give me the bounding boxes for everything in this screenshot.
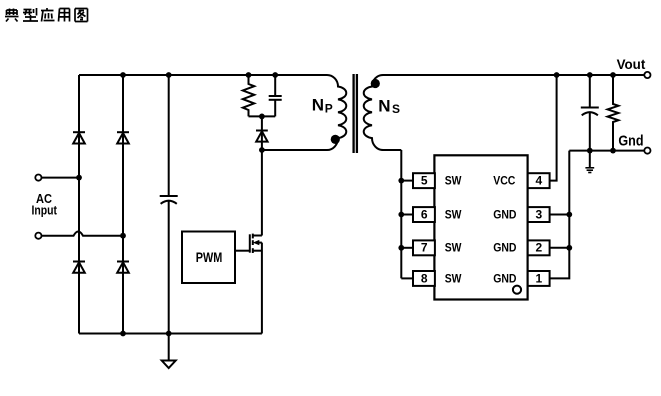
transistor Q1 (MOSFET) [250,234,262,253]
svg-text:GND: GND [493,243,516,255]
wire: bottom rail [79,333,262,335]
node: Gnd rail / resistor [610,148,616,154]
svg-text:GND: GND [493,209,516,221]
label: Np [312,96,333,116]
应 [41,8,55,22]
svg-text:N: N [312,96,324,115]
wire: gate lead [235,250,250,252]
pin 8 box [413,271,435,286]
resistor R2 (output load) [608,75,619,151]
diode D2 top-right [117,132,129,143]
svg-text:VCC: VCC [493,176,515,188]
wire: bridge right vertical [122,75,124,334]
diode D1 top-left [73,132,85,143]
node: top rail / output cap [587,72,593,78]
wire: pin6 lead [401,214,413,216]
wire: filter cap branch lower [168,201,170,334]
node: top rail / snubber capacitor [272,72,278,78]
svg-text:7: 7 [421,241,428,255]
型 [23,8,38,21]
svg-text:SW: SW [445,176,462,188]
svg-text:Input: Input [31,204,57,218]
wire: secondary bottom lead to SW bus [400,150,402,278]
svg-text:5: 5 [421,174,428,188]
resistor R1 (snubber) [243,75,254,116]
node: top rail / snubber resistor [246,72,252,78]
pin 6 box [413,207,435,222]
wire: snubber RC join [249,115,276,117]
wire: pin7 lead [401,247,413,249]
wire: VCC lead to top rail [550,75,557,181]
典 [5,9,19,22]
svg-text:8: 8 [421,271,428,285]
wire: pin5 lead [401,180,413,182]
pin 7 box [413,240,435,255]
svg-text:P: P [325,102,333,116]
wire: top rail primary side [79,74,327,76]
svg-text:PWM: PWM [196,249,223,265]
wire: pin3 lead [550,214,570,216]
diode D5 (snubber clamp) [256,116,268,150]
terminal: Gnd [644,148,650,154]
node: top rail / output resistor [610,72,616,78]
node: AC2 junction [120,233,126,239]
用 [59,9,70,22]
svg-text:Vout: Vout [617,56,646,72]
pin 3 box [528,207,550,222]
node: snubber RC midpoint [259,114,265,120]
node: GND bus pin3 [566,212,572,218]
svg-text:SW: SW [445,209,462,221]
node: GND bus pin2 [566,245,572,251]
transformer T1 secondary winding Ns [364,75,402,150]
wire: filter cap branch upper [168,75,170,196]
node: top rail / filter cap branch [166,72,172,78]
svg-text:N: N [378,96,390,115]
capacitor C2 (snubber) [269,75,282,116]
PWM controller block [182,232,235,284]
svg-text:SW: SW [445,273,462,285]
title 典型应用图 [5,8,88,22]
wire: pin2 lead [550,247,570,249]
svg-text:SW: SW [445,243,462,255]
svg-text:1: 1 [536,271,543,285]
capacitor C3 (output, polarized) [581,75,599,151]
wire: bridge left vertical [78,75,80,334]
node: drain / primary-bottom junction [259,147,265,153]
ground (primary) [162,334,176,369]
transistor Q1 body-diode arrow [253,240,259,245]
pin 5 box [413,173,435,188]
op-amp U1 body (sync rectifier IC) [434,155,527,299]
terminal: AC input bottom [35,233,41,239]
wire: source to bottom rail [261,243,263,334]
wire: pin8 lead [401,277,413,279]
pin 2 box [528,240,550,255]
svg-text:2: 2 [536,241,543,255]
wire: top rail secondary side [383,74,644,76]
diode D3 bottom-left [73,262,85,273]
wire: AC line 2 with hop over left vertical [42,231,124,235]
capacitor C1 (bulk, polarized) [160,196,178,204]
terminal: Vout [644,72,650,78]
svg-text:Gnd: Gnd [618,132,643,149]
label: Ns [378,96,400,116]
node: SW bus pin6 [398,212,404,218]
terminal: AC input top [35,175,41,181]
label: AC Input [31,191,57,218]
svg-text:4: 4 [536,174,543,188]
node: AC1 junction [76,175,82,181]
pin1 indicator circle [513,286,521,294]
svg-text:6: 6 [421,207,428,221]
transformer T1 primary winding Np [262,75,346,150]
svg-text:S: S [392,102,400,116]
node: Gnd rail / cap [587,148,593,154]
svg-text:GND: GND [493,273,516,285]
svg-text:3: 3 [536,207,543,221]
node: top rail / VCC [554,72,560,78]
node: bottom rail / bridge right vertical [120,331,126,337]
图 [75,9,88,22]
ground (secondary earth) [585,151,594,173]
wire: Gnd rail [569,150,644,152]
pin 1 box [528,271,550,286]
node: primary phase dot [331,135,340,144]
node: SW bus pin5 [398,178,404,184]
node: top rail / bridge right vertical [120,72,126,78]
transformer T1 core [354,74,357,153]
node: secondary phase dot [371,79,380,88]
node: SW bus pin7 [398,245,404,251]
diode D4 bottom-right [117,262,129,273]
wire: GND bus right [550,151,570,279]
node: bottom rail / ground [166,331,172,337]
wire: drain to primary [261,150,263,236]
wire: AC line 1 [42,177,80,179]
pin 4 box [528,173,550,188]
